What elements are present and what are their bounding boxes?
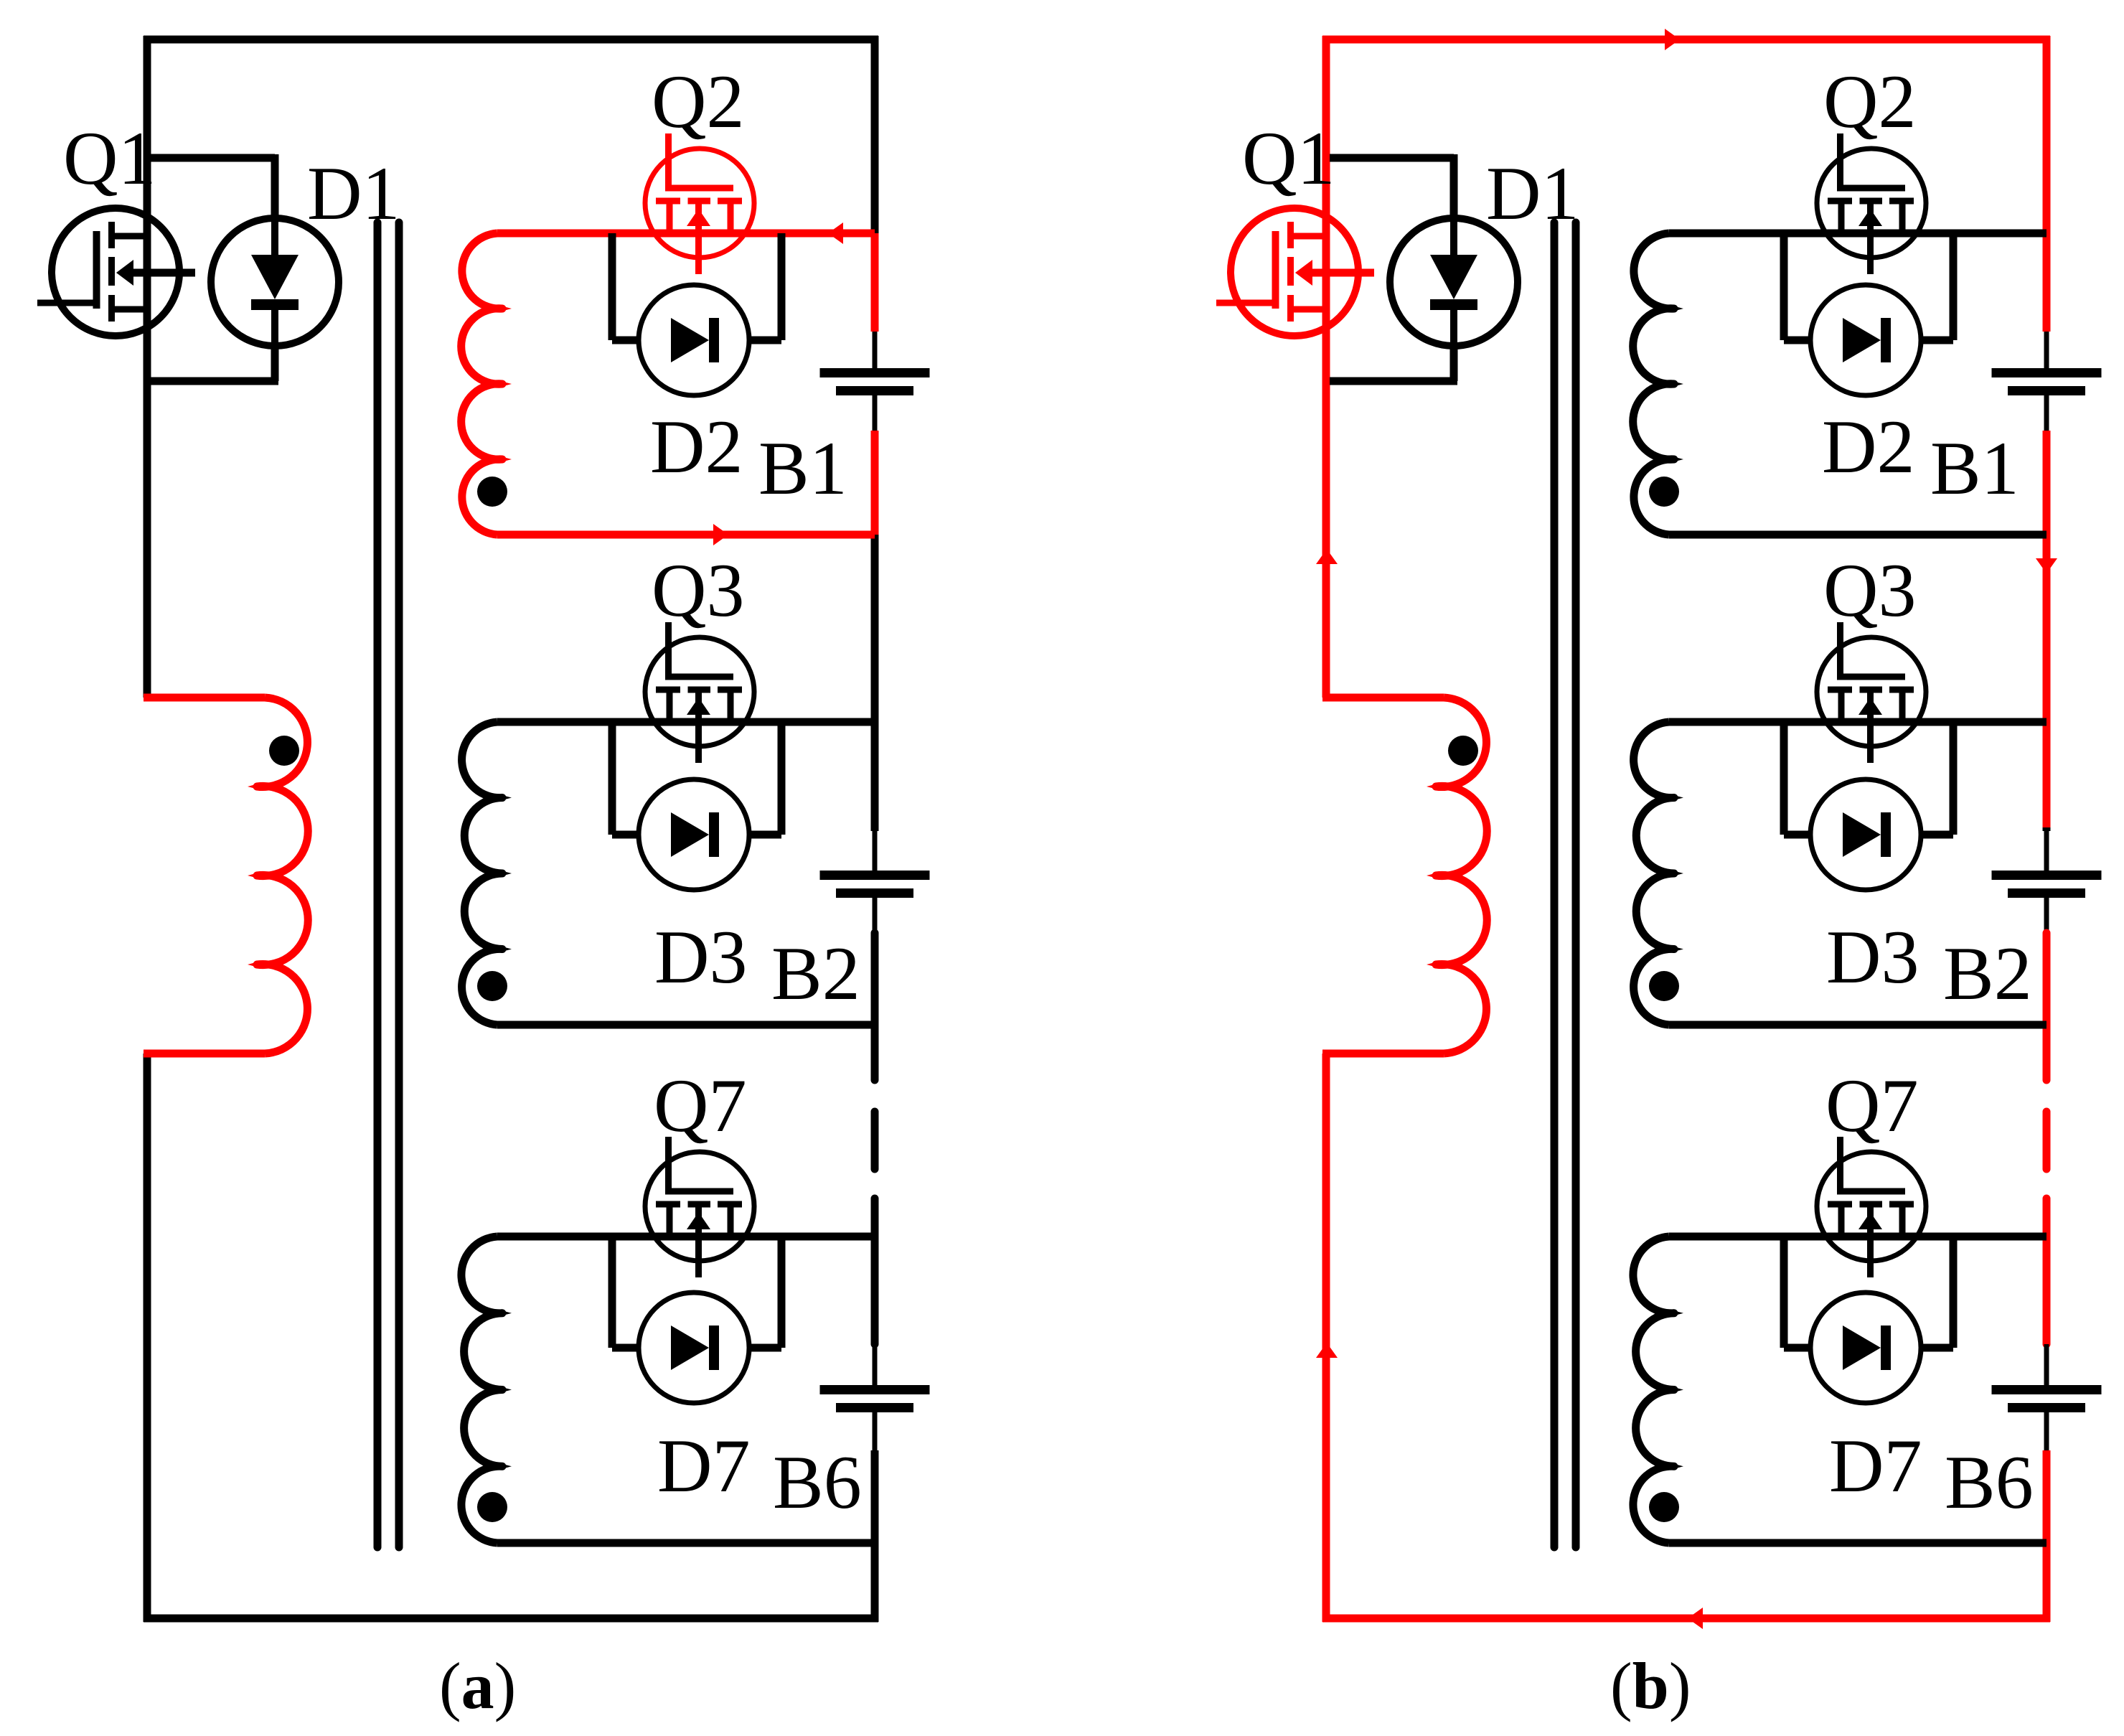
wire right bus mid section: [871, 535, 879, 831]
wire current arrow bottom rail: [1688, 1608, 1703, 1629]
wire B6 bottom lead: [873, 1412, 878, 1450]
diode D1: [1390, 218, 1518, 346]
wire right bus below B2: [2043, 933, 2051, 1080]
wire current arrow left rail upper: [1316, 549, 1338, 564]
svg-text:Q2: Q2: [1823, 60, 1917, 144]
wire top rail: [1322, 36, 2050, 44]
wire D7 parallel-branch stubs: [612, 1237, 781, 1348]
wire left rail lower: [1322, 1054, 1330, 1622]
wire right bus dashed (more modules): [871, 1112, 879, 1169]
svg-text:B2: B2: [771, 932, 860, 1015]
wire primary top link: [1322, 694, 1444, 702]
svg-text:Q7: Q7: [654, 1064, 747, 1148]
wire right bus bottom section: [2043, 1450, 2051, 1622]
wire Q1-D1 top link: [144, 154, 275, 162]
wire bottom rail: [144, 1615, 878, 1623]
wire Q7 module top: [1669, 1233, 2047, 1241]
wire left rail upper: [1322, 36, 1330, 698]
PANEL (a): [37, 36, 930, 1622]
wire Q2 module bottom: [497, 531, 875, 539]
wire right bus top section: [871, 36, 879, 233]
svg-text:D7: D7: [657, 1424, 751, 1508]
wire Q3 module bottom: [1669, 1021, 2047, 1029]
wire top rail: [144, 36, 878, 44]
battery B1: [820, 368, 930, 395]
wire Q2 module bottom: [1669, 531, 2047, 539]
wire D1 bottom lead: [1450, 345, 1458, 381]
wire right bus B1 lower (highlight): [871, 431, 879, 535]
node dot secondary winding B6 module: [1649, 1492, 1679, 1522]
transistor Q3 (MOSFET): [1817, 622, 1926, 763]
wire Q1-D1 bottom link: [1330, 377, 1457, 385]
wire primary bottom link: [1322, 1050, 1444, 1058]
svg-text:B6: B6: [773, 1440, 862, 1524]
svg-text:Q7: Q7: [1825, 1064, 1919, 1148]
node dot primary winding: [1448, 736, 1478, 766]
transformer core: [377, 222, 399, 1547]
diode D2: [612, 285, 781, 395]
node dot primary winding: [269, 736, 299, 766]
node dot secondary winding B2 module: [1649, 971, 1679, 1001]
winding secondary of B6 module: [1633, 1237, 1683, 1543]
transistor Q7 (MOSFET): [645, 1137, 754, 1277]
wire Q1-D1 bottom link: [144, 377, 278, 385]
wire right bus dashed (more modules): [2043, 1112, 2051, 1169]
wire Q7 module bottom: [1669, 1539, 2047, 1547]
battery B2: [820, 871, 930, 898]
wire B1 top lead: [2044, 332, 2049, 368]
wire B6 bottom lead: [2044, 1412, 2049, 1450]
winding secondary of B2 module: [1634, 722, 1683, 1025]
svg-text:D7: D7: [1829, 1424, 1922, 1508]
diode D3: [612, 779, 781, 890]
transistor Q1 (MOSFET): [37, 208, 195, 336]
wire current arrow module B1 top: [828, 222, 843, 244]
wire D2 parallel-branch stubs: [612, 233, 781, 340]
transistor Q2 (MOSFET): [645, 133, 754, 274]
transistor Q2 (MOSFET): [1817, 133, 1926, 274]
winding secondary of B1 module: [1633, 233, 1683, 535]
wire B2 bottom lead: [873, 898, 878, 933]
node dot secondary winding B2 module: [477, 971, 507, 1001]
wire B6 top lead: [2044, 1344, 2049, 1385]
wire Q7 module top: [497, 1233, 875, 1241]
wire Q2 module top: [497, 230, 875, 238]
wire primary bottom link: [144, 1050, 265, 1058]
wire primary top link: [144, 694, 265, 702]
wire right bus above B2: [2043, 827, 2051, 831]
battery B6: [820, 1385, 930, 1412]
wire right bus bottom section: [871, 1450, 879, 1622]
winding secondary of B2 module: [462, 722, 512, 1025]
wire Q1-D1 top link: [1330, 154, 1454, 162]
svg-text:B1: B1: [1930, 426, 2019, 510]
transistor Q1 (MOSFET): [1216, 208, 1374, 336]
wire current arrow right bus: [2036, 558, 2057, 573]
wire right bus top section: [2043, 36, 2051, 332]
wire B6 top lead: [873, 1344, 878, 1385]
wire right bus B1 lower section: [2043, 431, 2051, 827]
wire right bus below B2: [871, 933, 879, 1080]
diode D2: [1784, 285, 1953, 395]
wire B2 top lead: [2044, 831, 2049, 871]
wire Q3 module bottom: [497, 1021, 875, 1029]
wire bottom rail: [1322, 1615, 2050, 1623]
wire D1 bottom lead: [271, 345, 279, 381]
winding secondary of B1 module: [461, 233, 512, 535]
svg-text:D1: D1: [307, 151, 400, 235]
svg-text:(b): (b): [1610, 1649, 1691, 1722]
wire D1 top lead: [1450, 154, 1458, 219]
transformer core: [1554, 222, 1576, 1547]
wire right bus B1 upper (highlight): [871, 233, 879, 332]
node dot secondary winding B1 module: [1649, 477, 1679, 507]
wire B2 bottom lead: [2044, 898, 2049, 933]
wire B2 top lead: [873, 831, 878, 871]
transistor Q3 (MOSFET): [645, 622, 754, 763]
winding primary: [248, 698, 308, 1054]
wire right bus above module Q7: [2043, 1198, 2051, 1344]
diode D7: [612, 1292, 781, 1403]
svg-text:Q2: Q2: [652, 60, 745, 144]
wire Q2 module top: [1669, 230, 2047, 238]
svg-text:Q3: Q3: [652, 548, 745, 632]
node dot secondary winding B6 module: [477, 1492, 507, 1522]
wire D1 top lead: [271, 154, 279, 219]
battery B6: [1992, 1385, 2102, 1412]
wire D3 parallel-branch stubs: [1784, 722, 1953, 835]
wire left rail lower: [144, 1054, 151, 1622]
svg-text:B6: B6: [1945, 1440, 2034, 1524]
svg-text:B1: B1: [758, 426, 847, 510]
wire current arrow left rail lower: [1316, 1343, 1338, 1358]
battery B1: [1992, 368, 2102, 395]
svg-text:D3: D3: [1826, 915, 1919, 999]
diode D7: [1784, 1292, 1953, 1403]
diode D3: [1784, 779, 1953, 890]
battery B2: [1992, 871, 2102, 898]
wire B1 bottom lead: [873, 395, 878, 431]
wire Q3 module top: [1669, 718, 2047, 726]
diode D1: [211, 218, 339, 346]
wire right bus above module Q7: [871, 1198, 879, 1344]
svg-text:Q1: Q1: [63, 116, 156, 200]
wire B1 top lead: [873, 332, 878, 368]
wire D7 parallel-branch stubs: [1784, 1237, 1953, 1348]
node dot secondary winding B1 module: [477, 477, 507, 507]
svg-text:D3: D3: [654, 915, 748, 999]
wire current arrow module B1 bottom: [713, 524, 728, 545]
wire left rail upper: [144, 36, 151, 698]
svg-text:B2: B2: [1943, 932, 2032, 1015]
PANEL (b): [1216, 29, 2102, 1629]
wire D3 parallel-branch stubs: [612, 722, 781, 835]
wire current arrow top rail: [1665, 29, 1680, 50]
svg-text:D2: D2: [650, 405, 743, 489]
svg-text:D1: D1: [1486, 151, 1579, 235]
svg-text:Q3: Q3: [1823, 548, 1917, 632]
transistor Q7 (MOSFET): [1817, 1137, 1926, 1277]
wire Q3 module top: [497, 718, 875, 726]
svg-text:Q1: Q1: [1242, 116, 1335, 200]
winding secondary of B6 module: [461, 1237, 512, 1543]
svg-text:(a): (a): [439, 1649, 516, 1722]
svg-text:D2: D2: [1822, 405, 1915, 489]
wire D2 parallel-branch stubs: [1784, 233, 1953, 340]
wire B1 bottom lead: [2044, 395, 2049, 431]
winding primary: [1427, 698, 1487, 1054]
wire Q7 module bottom: [497, 1539, 875, 1547]
